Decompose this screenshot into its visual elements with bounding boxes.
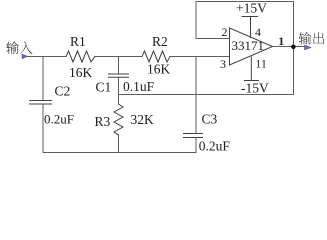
svg-text:2: 2 [222,25,228,39]
svg-text:R2: R2 [152,34,168,49]
svg-text:16K: 16K [147,62,171,77]
svg-text:C1: C1 [96,80,112,95]
svg-text:0.2uF: 0.2uF [199,138,231,153]
svg-text:0.2uF: 0.2uF [44,111,74,126]
svg-text:R1: R1 [70,34,86,49]
svg-text:C2: C2 [55,84,71,99]
svg-text:1: 1 [278,34,284,48]
svg-text:-15V: -15V [241,81,269,96]
svg-text:+15V: +15V [236,0,267,15]
svg-text:11: 11 [255,56,267,70]
svg-text:C3: C3 [202,112,218,127]
svg-text:4: 4 [255,25,261,39]
svg-text:32K: 32K [131,112,155,127]
svg-text:3: 3 [220,57,226,71]
svg-text:0.1uF: 0.1uF [123,79,155,94]
svg-text:R3: R3 [95,114,111,129]
svg-text:33171: 33171 [232,38,265,53]
svg-text:16K: 16K [69,65,93,80]
